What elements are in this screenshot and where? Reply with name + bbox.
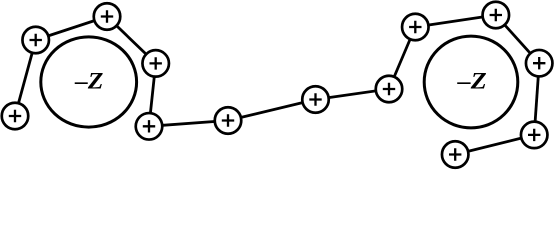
wire B8-B9 xyxy=(389,27,415,89)
macroion M1 (-Z) xyxy=(41,37,137,127)
wire B2-B3 xyxy=(36,17,107,41)
counterion bead B9 xyxy=(402,14,429,41)
macroion M2 (-Z) xyxy=(424,36,518,128)
wire B1-B2 xyxy=(15,40,36,116)
counterion bead B1 xyxy=(2,103,29,130)
wire B7-B8 xyxy=(316,89,390,100)
counterion bead B4 xyxy=(142,50,169,77)
wire B4-B5 xyxy=(149,63,156,126)
counterion bead B2 xyxy=(22,27,49,54)
wire B9-B10 xyxy=(415,15,496,27)
counterion bead B8 xyxy=(376,76,403,103)
counterion bead B13 xyxy=(442,141,469,168)
counterion bead B10 xyxy=(483,2,510,29)
counterion bead B5 xyxy=(136,113,163,140)
counterion bead B3 xyxy=(94,3,121,30)
wire B6-B7 xyxy=(228,100,316,121)
wire B11-B12 xyxy=(534,63,539,135)
wire B5-B6 xyxy=(149,121,228,127)
counterion bead B7 xyxy=(302,86,329,113)
svg-text:–Z: –Z xyxy=(457,68,487,93)
counterion bead B11 xyxy=(526,50,553,76)
wire B10-B11 xyxy=(496,15,539,63)
counterion bead B6 xyxy=(215,107,242,134)
wire B3-B4 xyxy=(107,17,156,64)
wire B12-B13 xyxy=(455,135,534,155)
svg-text:–Z: –Z xyxy=(74,68,103,93)
counterion bead B12 xyxy=(521,122,548,149)
